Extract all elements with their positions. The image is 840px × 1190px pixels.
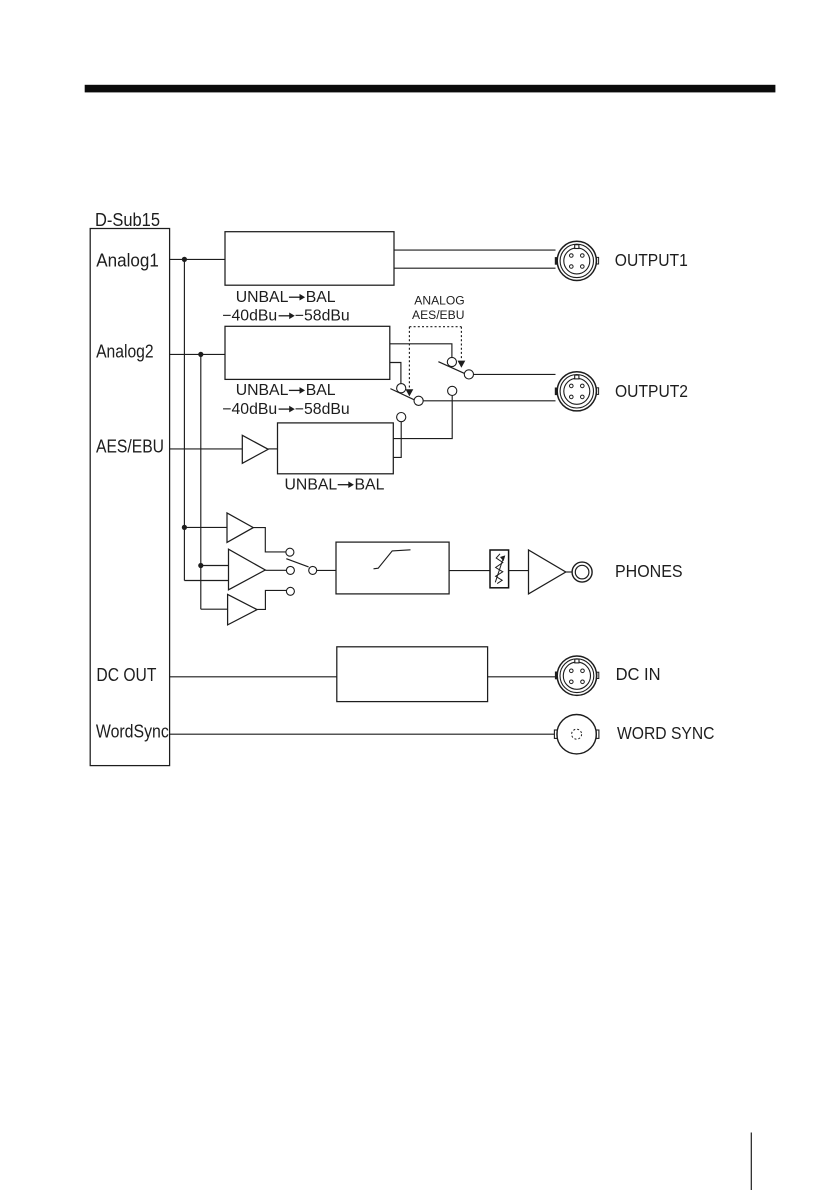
node phones tap Analog1 (182, 525, 187, 530)
svg-text:−40dBu: −40dBu (222, 401, 277, 418)
wire tap to headphone amp A1 (184, 526, 227, 528)
wire Analog2 to amp block U2 (170, 353, 225, 355)
amp block U2 Analog2 UNBAL to BAL (225, 326, 390, 379)
wire Analog1 bus to headphone amp A2 (184, 580, 228, 582)
value label U1 UNBAL-BAL (236, 289, 336, 306)
phones jack J3 (572, 562, 592, 582)
svg-text:OUTPUT1: OUTPUT1 (615, 250, 688, 270)
OUTPUT2 connector J2 (555, 372, 599, 411)
switch S2 common contact (414, 396, 423, 405)
selector S3 contact 2 (286, 566, 294, 574)
wire AES/EBU to buffer U3 (170, 448, 243, 450)
page top rule (85, 85, 776, 93)
wire A1 output to selector contact 1 (253, 528, 286, 552)
svg-text:−58dBu: −58dBu (295, 308, 350, 325)
svg-text:AES/EBU: AES/EBU (412, 308, 464, 322)
wire volume control to headphone amp A4 (509, 570, 529, 572)
svg-text:PHONES: PHONES (615, 561, 683, 581)
selector S3 contact 3 (286, 587, 294, 595)
filter response curve (374, 550, 411, 569)
svg-text:Analog2: Analog2 (96, 340, 154, 361)
wire DC OUT to power block (170, 676, 337, 678)
switch S1 common contact (464, 370, 473, 379)
switch S1 aes contact (448, 386, 457, 395)
svg-text:BAL: BAL (306, 382, 336, 399)
switch S1 lever (438, 362, 464, 374)
arrowhead at switch S2 (406, 389, 414, 396)
wire Analog2 bus to headphone amp A3 (201, 608, 228, 610)
page corner mark (750, 1133, 752, 1190)
svg-text:D-Sub15: D-Sub15 (95, 209, 160, 230)
value label U4 UNBAL-BAL (285, 477, 385, 494)
svg-text:DC IN: DC IN (616, 664, 661, 684)
amp block U4 AES/EBU UNBAL to BAL (278, 423, 394, 474)
wire A3 output to selector contact 3 (257, 590, 286, 609)
D-Sub15 connector box (90, 229, 169, 766)
svg-text:UNBAL: UNBAL (236, 382, 289, 399)
svg-text:−40dBu: −40dBu (222, 308, 277, 325)
svg-text:BAL: BAL (355, 477, 385, 494)
svg-text:WordSync: WordSync (96, 721, 169, 742)
svg-text:UNBAL: UNBAL (285, 477, 338, 494)
svg-text:AES/EBU: AES/EBU (96, 436, 164, 457)
selector S3 contact 1 (286, 548, 294, 556)
wire Analog1 bus vertical (183, 259, 185, 580)
VR1 wiper arrow (495, 560, 502, 582)
power block P1 (337, 647, 488, 702)
wire Analog2 bus vertical (200, 354, 202, 609)
svg-text:OUTPUT2: OUTPUT2 (615, 381, 688, 401)
wire Analog1 to amp block U1 (170, 258, 225, 260)
VR1 resistor zigzag (496, 554, 503, 584)
selector S3 common contact (309, 566, 317, 574)
wire U1 output hot to OUTPUT1 (394, 249, 556, 251)
wire WordSync to WORD SYNC connector (170, 733, 555, 735)
node Analog1 junction (182, 257, 187, 262)
dashed control line to switch S2 (408, 327, 410, 389)
svg-text:WORD SYNC: WORD SYNC (617, 723, 715, 743)
OUTPUT1 connector J1 (555, 241, 599, 280)
wire selector to filter block (317, 569, 336, 571)
wire power block to DC IN (488, 676, 556, 678)
wire filter to volume control (449, 570, 490, 572)
wire U2 output cold to switch S2 (390, 363, 401, 384)
svg-text:BAL: BAL (306, 289, 336, 306)
headphone amp A3 (228, 594, 258, 625)
node Analog2 junction (198, 352, 203, 357)
DC IN connector J4 (555, 656, 599, 695)
wire tap to headphone amp A2 (201, 565, 229, 567)
headphone amp A1 (227, 513, 253, 543)
buffer amp U3 AES/EBU (242, 435, 268, 463)
filter block F1 (336, 542, 449, 594)
dashed control line horizontal (409, 326, 461, 328)
wire U1 output cold to OUTPUT1 (394, 267, 556, 269)
wire A2 output to selector contact 2 (265, 569, 286, 571)
amp block U1 Analog1 UNBAL to BAL (225, 232, 394, 286)
volume control VR1 (490, 550, 509, 588)
node phones tap Analog2 (198, 563, 203, 568)
switch S2 aes contact (397, 413, 406, 422)
svg-text:−58dBu: −58dBu (295, 401, 350, 418)
WORD SYNC connector J5 BNC (554, 715, 599, 754)
headphone amp A2 (229, 549, 266, 590)
wire A4 to phones jack (566, 571, 573, 573)
dashed control line to switch S1 (460, 327, 462, 361)
wire U4 output cold to switch S2 aes contact (393, 422, 401, 458)
value label U1 gain (222, 308, 349, 325)
switch S2 analog contact (397, 384, 406, 393)
wire U4 output hot to switch S1 aes contact (393, 396, 452, 439)
svg-text:ANALOG: ANALOG (414, 294, 464, 308)
selector S3 lever (286, 559, 308, 567)
svg-text:Analog1: Analog1 (96, 249, 159, 270)
value label U2 UNBAL-BAL (236, 382, 336, 399)
wire S1 common to OUTPUT2 (474, 373, 556, 375)
svg-text:UNBAL: UNBAL (236, 289, 289, 306)
switch S1 analog contact (447, 357, 456, 366)
headphone amp A4 (529, 550, 566, 594)
wire U3 to amp block U4 (268, 448, 277, 450)
svg-text:DC OUT: DC OUT (96, 664, 156, 685)
switch S2 lever (390, 389, 414, 400)
wire S2 common to OUTPUT2 (423, 400, 555, 402)
value label U2 gain (222, 401, 349, 418)
arrowhead at switch S1 (458, 361, 466, 368)
wire U2 output hot to switch S1 (390, 344, 452, 358)
